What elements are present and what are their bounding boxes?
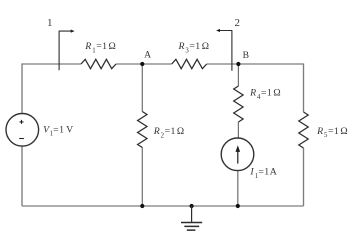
svg-text:R2=1Ω: R2=1Ω — [153, 126, 185, 139]
node B junction dot — [236, 62, 240, 66]
svg-text:B: B — [243, 50, 249, 61]
wire left branch lower — [21, 146, 23, 206]
svg-text:A: A — [144, 50, 151, 61]
node A junction dot — [140, 62, 144, 66]
bottom junction dot at R2 — [140, 204, 144, 208]
voltage source V1 — [6, 114, 39, 147]
wire right branch lower — [303, 148, 305, 206]
svg-text:R3=1Ω: R3=1Ω — [178, 41, 210, 54]
svg-text:V1=1V: V1=1V — [43, 124, 73, 137]
resistor R3 — [172, 59, 207, 68]
wire top between R3 and B — [207, 63, 239, 65]
svg-text:I1=1A: I1=1A — [249, 167, 276, 180]
wire top between B and right corner — [238, 63, 303, 65]
resistor R2 — [138, 112, 147, 148]
wire top between A and R3 — [142, 63, 171, 65]
bottom junction dot at I1 — [236, 204, 240, 208]
wire node B branch middle — [237, 122, 239, 138]
wire top between R1 and A — [116, 63, 142, 65]
wire bottom — [22, 205, 304, 207]
wire node B branch lower — [237, 171, 239, 206]
ground — [191, 206, 193, 222]
svg-text:R5=1Ω: R5=1Ω — [316, 126, 348, 139]
mesh marker 1 — [59, 31, 71, 71]
svg-text:R4=1Ω: R4=1Ω — [249, 88, 281, 101]
V1 plus sign — [20, 120, 24, 124]
svg-text:1: 1 — [47, 17, 53, 29]
resistor R5 — [299, 112, 308, 148]
current source I1 — [221, 138, 254, 171]
resistor R1 — [81, 59, 116, 68]
wire top left segment — [22, 63, 81, 65]
wire node A branch lower — [141, 148, 143, 207]
wire left branch upper — [21, 63, 23, 113]
V1 minus sign — [19, 138, 24, 140]
I1 arrow — [237, 151, 239, 164]
wire node A branch upper — [141, 64, 143, 112]
svg-text:R1=1Ω: R1=1Ω — [84, 41, 116, 54]
svg-text:2: 2 — [235, 17, 241, 29]
mesh marker 2 — [220, 30, 232, 71]
wire node B branch upper — [237, 64, 239, 86]
wire right branch upper — [303, 63, 305, 112]
resistor R4 — [234, 86, 243, 122]
bottom junction dot at ground — [190, 204, 194, 208]
